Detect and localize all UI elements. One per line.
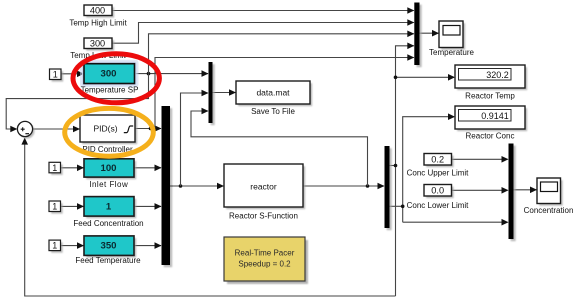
svg-text:1: 1 bbox=[52, 163, 57, 173]
svg-text:Temperature: Temperature bbox=[429, 48, 474, 57]
svg-text:Reactor Temp: Reactor Temp bbox=[465, 92, 515, 101]
svg-text:Speedup = 0.2: Speedup = 0.2 bbox=[238, 259, 291, 268]
svg-text:Real-Time Pacer: Real-Time Pacer bbox=[235, 248, 295, 257]
svg-text:300: 300 bbox=[100, 68, 116, 79]
svg-text:Feed Concentration: Feed Concentration bbox=[73, 219, 143, 228]
svg-text:Temperature SP: Temperature SP bbox=[81, 86, 139, 95]
svg-text:0.0: 0.0 bbox=[431, 186, 444, 196]
svg-text:Save To File: Save To File bbox=[251, 107, 295, 116]
svg-text:PID(s): PID(s) bbox=[93, 123, 117, 133]
svg-text:Inlet Flow: Inlet Flow bbox=[89, 180, 128, 189]
svg-text:Concentration: Concentration bbox=[524, 206, 574, 215]
svg-text:Feed Temperature: Feed Temperature bbox=[75, 256, 141, 265]
svg-text:300: 300 bbox=[90, 39, 105, 49]
svg-text:reactor: reactor bbox=[250, 181, 277, 191]
svg-text:100: 100 bbox=[100, 163, 116, 174]
svg-text:1: 1 bbox=[52, 241, 57, 251]
svg-text:Reactor S-Function: Reactor S-Function bbox=[229, 211, 298, 220]
svg-text:Conc Upper Limit: Conc Upper Limit bbox=[407, 168, 470, 177]
svg-text:0.2: 0.2 bbox=[431, 155, 444, 165]
svg-text:data.mat: data.mat bbox=[256, 87, 290, 97]
svg-text:Reactor Conc: Reactor Conc bbox=[466, 132, 515, 141]
svg-text:1: 1 bbox=[52, 202, 57, 212]
svg-text:350: 350 bbox=[100, 241, 116, 252]
svg-text:Conc Lower Limit: Conc Lower Limit bbox=[407, 201, 470, 210]
svg-text:400: 400 bbox=[90, 6, 105, 16]
svg-text:0.9141: 0.9141 bbox=[481, 111, 509, 121]
svg-text:320.2: 320.2 bbox=[486, 70, 509, 80]
svg-text:1: 1 bbox=[53, 70, 58, 80]
svg-text:1: 1 bbox=[106, 201, 112, 212]
svg-text:Temp High Limit: Temp High Limit bbox=[69, 18, 127, 27]
